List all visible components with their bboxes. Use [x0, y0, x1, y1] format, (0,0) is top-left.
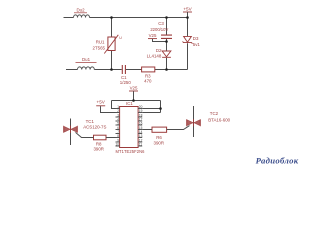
- svg-text:C3: C3: [158, 21, 164, 26]
- svg-text:2T565: 2T565: [93, 45, 106, 50]
- capacitor C1: [120, 65, 132, 85]
- svg-text:+5V: +5V: [97, 99, 106, 104]
- wire C3/D2 column: [166, 18, 168, 70]
- wire IC pin to R6 and to TC2 gate: [142, 126, 189, 130]
- IC left pin stubs: [116, 109, 120, 147]
- svg-text:RU1: RU1: [96, 39, 105, 44]
- wire varistor column: [111, 18, 113, 70]
- node junction dots: [110, 16, 189, 110]
- svg-text:1/250: 1/250: [120, 80, 132, 85]
- triac TC1: [63, 119, 106, 146]
- svg-text:2: 2: [117, 109, 119, 113]
- svg-text:U: U: [119, 36, 122, 40]
- inductor Du2: [74, 7, 90, 17]
- svg-text:Du1: Du1: [82, 57, 91, 62]
- svg-text:V25: V25: [130, 85, 138, 90]
- wire IC top net: [112, 101, 161, 113]
- svg-text:MT1TE25F2N6: MT1TE25F2N6: [115, 149, 145, 154]
- svg-text:V25: V25: [149, 33, 157, 38]
- capacitor C3: [150, 21, 172, 38]
- node row1/C3: [165, 16, 168, 19]
- IC pin numbers left: [115, 105, 119, 147]
- node V25/C3 column: [165, 40, 168, 43]
- svg-text:D2: D2: [156, 48, 162, 53]
- IC pin numbers right: [139, 105, 143, 147]
- svg-text:BTA16-600: BTA16-600: [208, 118, 230, 123]
- wire V25 stub down to IC top net: [133, 91, 135, 100]
- svg-text:Радиоблок: Радиоблок: [256, 156, 299, 166]
- svg-text:16: 16: [139, 122, 143, 126]
- power port V25 above IC: [129, 85, 138, 91]
- wire R8 to IC pin8 and to TC1 gate: [76, 132, 116, 137]
- svg-text:ACS120-7S: ACS120-7S: [83, 125, 106, 130]
- IC right pin stubs: [138, 109, 142, 147]
- svg-text:11: 11: [139, 143, 143, 147]
- svg-text:19: 19: [139, 109, 143, 113]
- node row1/+5V: [186, 16, 189, 19]
- power port +5V left: [96, 99, 106, 105]
- diode D2: [147, 48, 171, 58]
- svg-text:8: 8: [117, 134, 119, 138]
- inductor Du1: [76, 57, 97, 69]
- svg-text:13: 13: [139, 134, 143, 138]
- zener diode D3: [183, 36, 201, 47]
- svg-text:+5V: +5V: [183, 6, 192, 11]
- svg-text:Du2: Du2: [76, 7, 85, 12]
- svg-text:R6: R6: [156, 135, 162, 140]
- wire +5V stub to IC pin2: [101, 106, 116, 112]
- svg-text:TC1: TC1: [86, 119, 95, 124]
- svg-text:D3: D3: [193, 36, 199, 41]
- resistor R8: [93, 135, 106, 151]
- node row2/D2: [165, 68, 168, 71]
- wire V25 stub to node: [153, 39, 167, 42]
- svg-text:390R: 390R: [154, 140, 165, 145]
- svg-text:LL4148: LL4148: [147, 53, 162, 58]
- node row1/RU1: [110, 16, 113, 19]
- wire top rail row1: [64, 17, 188, 19]
- node IC pin18: [159, 107, 162, 110]
- svg-text:390R: 390R: [93, 146, 104, 151]
- svg-text:2200/10V: 2200/10V: [150, 27, 168, 32]
- svg-text:TC2: TC2: [210, 111, 219, 116]
- wire row2: [66, 69, 188, 71]
- power port V25 near C3: [148, 33, 157, 38]
- triac TC2: [186, 106, 230, 137]
- svg-text:5: 5: [117, 122, 119, 126]
- resistor R3: [142, 67, 155, 83]
- varistor RU1: [93, 35, 123, 54]
- svg-text:IC1: IC1: [126, 101, 133, 106]
- power port +5V top: [183, 6, 193, 12]
- node row2/RU1: [110, 68, 113, 71]
- node V25/IC top: [132, 99, 135, 102]
- svg-text:5v1: 5v1: [193, 42, 201, 47]
- IC IC1 body: [115, 101, 145, 154]
- wire D3 column: [187, 12, 189, 70]
- svg-text:10: 10: [115, 143, 119, 147]
- resistor R6: [152, 127, 167, 145]
- svg-text:470: 470: [144, 78, 152, 83]
